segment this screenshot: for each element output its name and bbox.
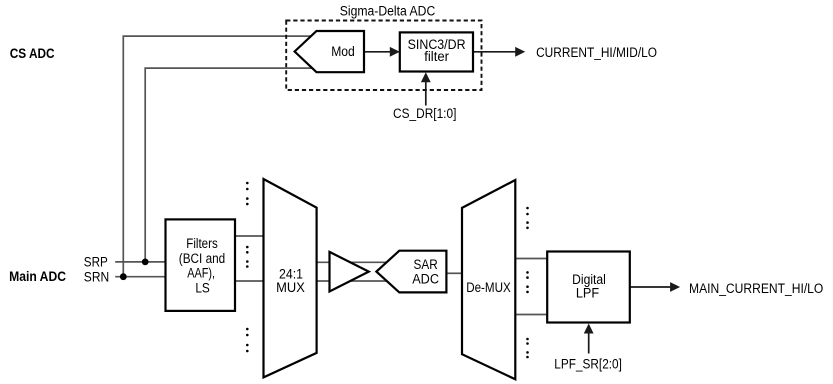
svg-text:ADC: ADC — [412, 272, 439, 287]
svg-text:MAIN_CURRENT_HI/LO: MAIN_CURRENT_HI/LO — [689, 281, 823, 296]
svg-text:MUX: MUX — [276, 280, 305, 295]
svg-text:CS ADC: CS ADC — [10, 46, 55, 61]
svg-text:LS: LS — [195, 280, 210, 295]
svg-text:AAF),: AAF), — [187, 266, 215, 281]
svg-text:CS_DR[1:0]: CS_DR[1:0] — [393, 106, 456, 121]
svg-text:LPF_SR[2:0]: LPF_SR[2:0] — [554, 357, 622, 372]
svg-text:filter: filter — [424, 49, 449, 64]
svg-text:SRP: SRP — [84, 254, 108, 269]
svg-text:SRN: SRN — [84, 270, 109, 285]
svg-text:De-MUX: De-MUX — [466, 280, 511, 295]
svg-text:Mod: Mod — [331, 44, 355, 59]
svg-text:Main ADC: Main ADC — [9, 269, 66, 284]
svg-text:CURRENT_HI/MID/LO: CURRENT_HI/MID/LO — [536, 45, 657, 60]
svg-text:LPF: LPF — [576, 286, 599, 301]
svg-text:(BCI and: (BCI and — [179, 251, 225, 266]
svg-text:Sigma-Delta ADC: Sigma-Delta ADC — [340, 3, 436, 18]
svg-text:SAR: SAR — [414, 257, 438, 272]
svg-text:Filters: Filters — [186, 236, 218, 251]
